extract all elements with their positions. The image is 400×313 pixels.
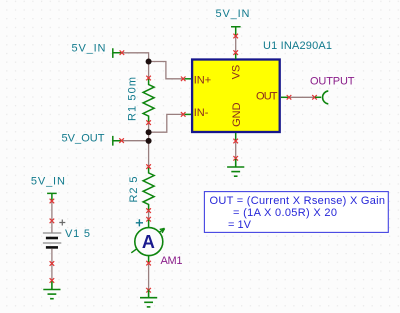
label OUTPUT <box>310 76 355 88</box>
jumper pin 5V_IN (battery top) <box>47 193 57 203</box>
wire: left 5V_IN pin to node A <box>122 53 149 62</box>
wire: R2 bottom to ammeter AM1 top <box>148 211 150 220</box>
wire: IC pin OUT to OUTPUT connector <box>289 96 315 98</box>
ammeter AM1 <box>131 217 164 266</box>
svg-text:GND: GND <box>231 102 243 127</box>
svg-text:= 1V: = 1V <box>228 219 252 231</box>
pin VS of U1 <box>231 50 243 79</box>
pin IN+ of U1 <box>181 74 211 86</box>
svg-text:A: A <box>142 232 155 252</box>
jumper pin 5V_IN (top) <box>231 27 241 39</box>
svg-text:U1 INA290A1: U1 INA290A1 <box>263 40 332 52</box>
resistor R2 <box>143 164 154 213</box>
pin GND of U1 <box>231 102 243 143</box>
label V1 5 <box>65 228 90 240</box>
op-amp U1 INA290A1 body <box>192 60 280 133</box>
svg-text:= (1A X 0.05R) X 20: = (1A X 0.05R) X 20 <box>233 207 337 219</box>
wire: node A down to resistor R1 top <box>148 62 150 79</box>
note text line 1 <box>210 195 386 207</box>
label R1 50m <box>127 77 139 121</box>
svg-text:5V_IN: 5V_IN <box>72 43 106 55</box>
note box <box>204 192 388 233</box>
wire: IC pin GND to ground <box>235 141 237 158</box>
svg-text:OUT: OUT <box>256 91 278 103</box>
label 5V_IN (left) <box>72 43 106 55</box>
ground (below ammeter) <box>140 288 157 307</box>
ground (below battery) <box>43 278 60 299</box>
resistor R1 <box>143 76 154 125</box>
wire: node B to node C <box>148 132 150 141</box>
label 5V_IN (battery) <box>31 175 65 187</box>
pin IN- of U1 <box>181 107 209 119</box>
svg-text:VS: VS <box>231 65 243 80</box>
wire: node B to IC pin IN- <box>149 114 184 132</box>
svg-text:IN+: IN+ <box>194 74 211 86</box>
svg-text:R1 50m: R1 50m <box>127 77 139 121</box>
wire: node C down to resistor R2 top <box>148 141 150 167</box>
ground (below U1 GND pin) <box>227 156 244 176</box>
label U1 INA290A1 <box>263 40 332 52</box>
OUTPUT connector <box>312 91 328 104</box>
svg-text:5V_IN: 5V_IN <box>216 8 250 20</box>
svg-text:5V_IN: 5V_IN <box>31 175 65 187</box>
jumper pin 5V_OUT (left) <box>113 136 124 146</box>
battery V1 <box>43 219 65 266</box>
svg-text:AM1: AM1 <box>161 255 183 267</box>
label 5V_IN (top) <box>216 8 250 20</box>
node C junction dot <box>146 138 152 144</box>
svg-text:OUTPUT: OUTPUT <box>310 76 355 88</box>
wire: node A to IC pin IN+ <box>149 62 184 79</box>
svg-text:OUT = (Current X Rsense) X Ga: OUT = (Current X Rsense) X Gain <box>210 195 386 207</box>
label 5V_OUT <box>62 132 105 144</box>
pin OUT of U1 <box>256 91 291 103</box>
node A junction dot <box>146 59 152 65</box>
wire: V1 minus terminal to ground <box>51 264 53 281</box>
wire: node C to 5V_OUT pin <box>122 140 149 142</box>
note text line 2 <box>233 207 337 219</box>
svg-text:V1 5: V1 5 <box>65 228 90 240</box>
wire: top 5V_IN pin to IC pin VS <box>235 36 237 53</box>
label AM1 <box>161 255 183 267</box>
note text line 3 <box>228 219 252 231</box>
wire: AM1 bottom to ground <box>148 263 150 290</box>
jumper pin 5V_IN (left) <box>113 48 124 58</box>
svg-text:5V_OUT: 5V_OUT <box>62 132 105 144</box>
wire: battery 5V_IN pin to V1 plus terminal <box>51 201 53 221</box>
label R2 5 <box>128 177 140 203</box>
wire: R1 bottom to node B <box>148 123 150 133</box>
svg-text:IN-: IN- <box>194 107 209 119</box>
svg-text:R2 5: R2 5 <box>128 177 140 203</box>
node B junction dot <box>146 129 152 135</box>
